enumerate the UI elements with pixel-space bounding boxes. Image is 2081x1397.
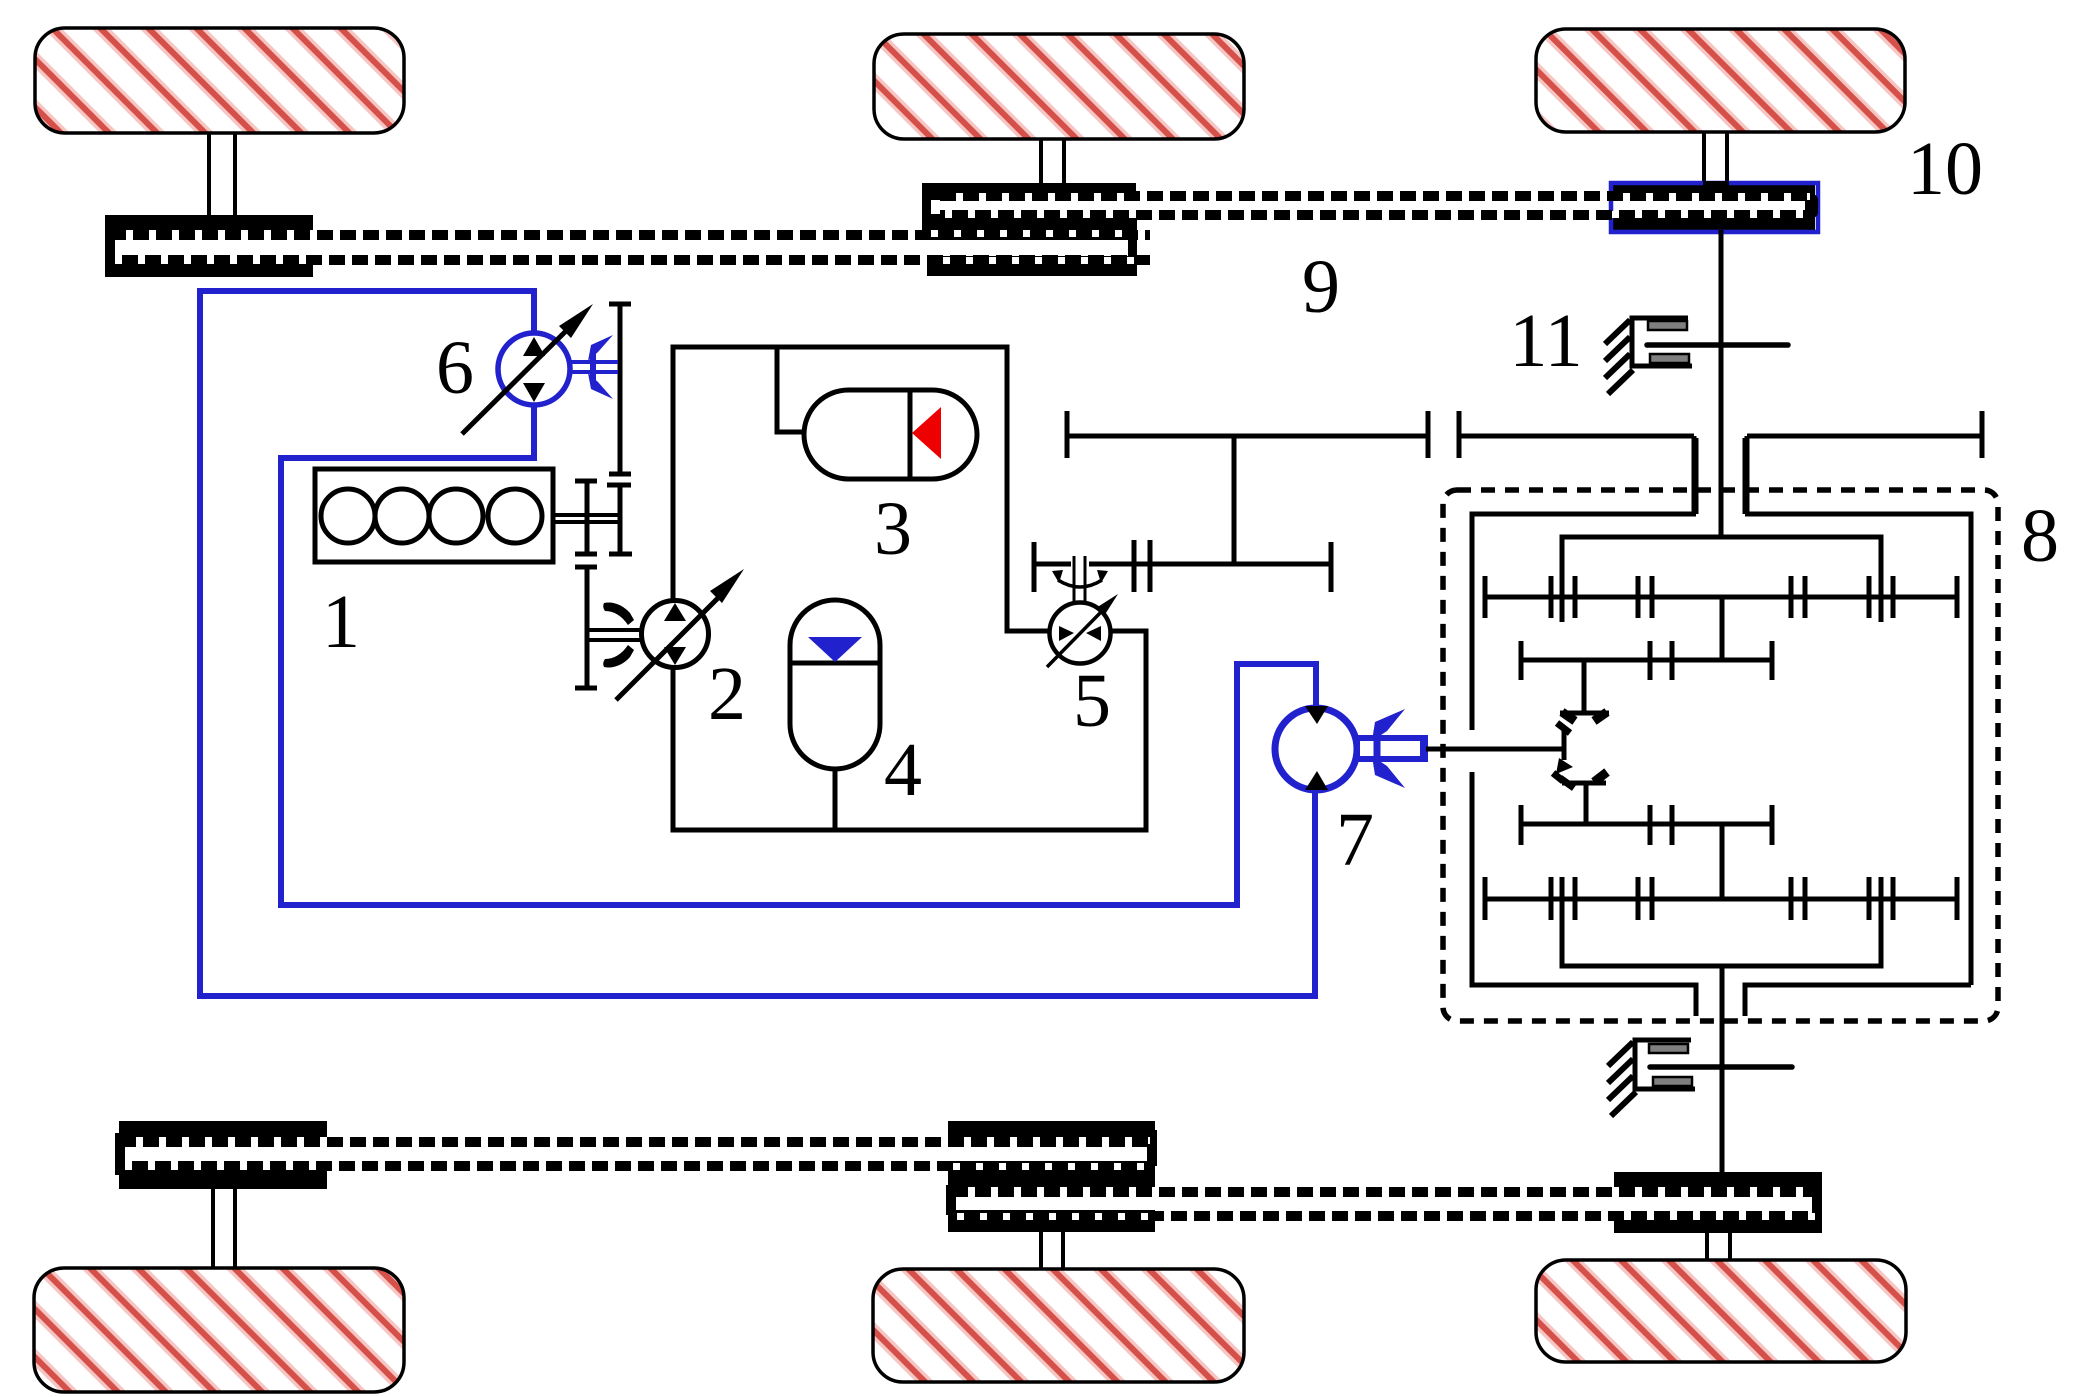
- wheel front-right tire: [1536, 29, 1905, 132]
- label 5: [1073, 659, 1111, 743]
- engine output shaft (double line): [553, 515, 618, 522]
- wheel stem front-middle: [1041, 139, 1064, 185]
- pump 2 rotation swirl arrows: [603, 602, 634, 667]
- pump 7 shaft rectangle (blue): [1357, 736, 1427, 761]
- accumulator 3 branch pipe: [777, 347, 806, 432]
- gearbox 8 dashed border: [1443, 490, 1998, 1021]
- pump 2 inner flow triangles: [664, 603, 686, 665]
- PTO shaft 1 (y=436) with clutch: [1067, 411, 1694, 514]
- bearing 11 pads (gray): [1648, 321, 1689, 363]
- pump 2 top port line is box left edge; pump 2 circle: [642, 601, 709, 668]
- hub rear-left: [115, 1121, 327, 1189]
- svg-text:4: 4: [884, 728, 922, 812]
- wheel rear-left tire: [34, 1268, 404, 1392]
- vertical drop shaft1 to shaft2: [1232, 436, 1237, 564]
- blue pipe inner loop (pump 6 bottom port to pump 7 top port): [281, 404, 1316, 905]
- accumulator 3 (high pressure, horizontal capsule): [804, 390, 977, 479]
- svg-text:7: 7: [1336, 798, 1374, 882]
- svg-text:2: 2: [708, 652, 746, 736]
- label 2: [708, 652, 746, 736]
- gearbox output tee: [1562, 877, 1881, 966]
- label 1: [322, 580, 360, 664]
- wheel stem front-right: [1704, 132, 1727, 184]
- swash lever top link: [1560, 660, 1609, 713]
- wheel stem rear-right: [1707, 1233, 1730, 1261]
- engine 1 block: [315, 469, 553, 562]
- gearbox outer frame verticals entering box: [1696, 438, 1745, 514]
- dashed transfer shaft row H: [952, 1213, 1818, 1220]
- gear row 4: [1485, 877, 1957, 920]
- gear row3-row4 junction: [1720, 824, 1725, 899]
- pump 7 inner flow triangles: [1305, 706, 1328, 790]
- dashed transfer shaft row A (front hub to front-right hub): [940, 193, 1810, 200]
- output bearing ground hatching: [1608, 1042, 1636, 1116]
- gear row 2: [1521, 641, 1772, 680]
- accumulator 4 blue triangle: [808, 637, 862, 662]
- svg-text:3: 3: [874, 487, 912, 571]
- wheel stem rear-middle: [1041, 1231, 1063, 1270]
- wheel stem front-left: [209, 133, 235, 217]
- hub rear-right: [1614, 1172, 1822, 1233]
- swash lever top wings: [1562, 712, 1607, 721]
- svg-text:5: 5: [1073, 659, 1111, 743]
- accumulator 4 (low pressure, vertical capsule): [790, 600, 880, 769]
- dashed transfer shaft row C (front-left to front-middle): [110, 230, 1150, 237]
- pump 2 variable displacement arrow: [616, 569, 744, 700]
- output shaft from gearbox to rear hub: [1720, 966, 1725, 1173]
- pump 5 inner triangles: [1059, 626, 1101, 641]
- output bearing bracket: [1635, 1040, 1695, 1089]
- dashed transfer shaft row F: [120, 1163, 1150, 1170]
- label 6: [436, 326, 474, 410]
- gear column on engine/pump6 shaft x=620: [607, 304, 632, 554]
- hub front-right black bars: [1613, 185, 1815, 230]
- svg-text:11: 11: [1509, 299, 1582, 383]
- gearbox bottom rails: [1472, 772, 1971, 1016]
- label 3: [874, 487, 912, 571]
- pump 6 circle (blue): [498, 333, 570, 405]
- pump 5 variable displacement arrow: [1047, 594, 1118, 667]
- engine cylinder circles: [321, 489, 542, 543]
- label 10: [1907, 127, 1983, 211]
- dashed transfer shaft row E (rear-left to rear-middle): [120, 1137, 1150, 1144]
- gear row 3: [1521, 805, 1772, 845]
- PTO right shaft (y=436): [1747, 411, 1982, 514]
- swash lever bottom link: [1562, 783, 1606, 824]
- svg-text:10: 10: [1907, 127, 1983, 211]
- accumulator 4 bottom port pipe: [833, 769, 838, 830]
- wheel front-left tire: [35, 28, 404, 133]
- wheel rear-right tire: [1536, 1260, 1906, 1362]
- pump 5 circle (on box edge): [1050, 603, 1111, 664]
- pump 6 inner flow triangles: [523, 337, 545, 402]
- pump 7 control rod into gearbox: [1426, 747, 1564, 752]
- wheel stem rear-left: [213, 1188, 235, 1269]
- pump 2 drive shaft (double line): [588, 630, 642, 640]
- pump 6 shaft claw coupling (blue): [571, 335, 618, 399]
- pump drive shaft 2 (y=564) with clutch: [1034, 540, 1331, 592]
- svg-text:8: 8: [2021, 494, 2059, 578]
- dashed transfer shaft row B: [940, 211, 1810, 218]
- gearbox top rails: [1472, 514, 1971, 985]
- pump 5 oscillation arc arrows: [1052, 570, 1108, 587]
- label 7: [1336, 798, 1374, 882]
- pump 6 variable displacement arrow: [462, 304, 593, 434]
- svg-text:6: 6: [436, 326, 474, 410]
- input shaft from wheel 10 hub down to gearbox: [1719, 230, 1724, 537]
- swash lever tilt lever with arrows: [1556, 723, 1574, 788]
- hub front-left: [105, 215, 313, 277]
- hub 10 blue outline: [1611, 181, 1818, 232]
- hub rear-middle: [946, 1121, 1157, 1232]
- dashed transfer shaft row G (rear-middle to rear-right): [952, 1187, 1818, 1194]
- gear row1-row2 junction: [1720, 597, 1725, 660]
- gear row 1: [1485, 576, 1957, 618]
- bearing 11 ground hatching: [1605, 320, 1633, 394]
- label 11: [1509, 299, 1582, 383]
- accumulator 3 red triangle: [912, 407, 941, 459]
- pump 7 claw coupling (blue): [1372, 709, 1405, 788]
- gear column layshaft x=587: [575, 481, 597, 688]
- label 8: [2021, 494, 2059, 578]
- output bearing pads (gray): [1649, 1044, 1692, 1086]
- pump 5 control shaft thin double line: [1074, 556, 1085, 602]
- blue pipe outer loop (pump 6 top port to pump 7 bottom port): [200, 291, 1315, 996]
- wheel front-middle tire: [874, 34, 1244, 139]
- hydraulic circuit box outline: [673, 347, 1146, 830]
- svg-text:9: 9: [1302, 245, 1340, 329]
- output bearing support line: [1650, 1064, 1792, 1070]
- wheel rear-middle tire: [873, 1269, 1244, 1382]
- swash lever bottom wings: [1553, 772, 1607, 782]
- hub front-middle: [922, 183, 1137, 276]
- bearing 11 bracket: [1632, 318, 1692, 366]
- bearing 11 support line: [1647, 342, 1788, 348]
- pump 7 circle (blue): [1275, 708, 1357, 790]
- label 4: [884, 728, 922, 812]
- svg-text:1: 1: [322, 580, 360, 664]
- label 9: [1302, 245, 1340, 329]
- gearbox input tee: [1562, 537, 1881, 622]
- dashed transfer shaft row D: [110, 257, 1150, 264]
